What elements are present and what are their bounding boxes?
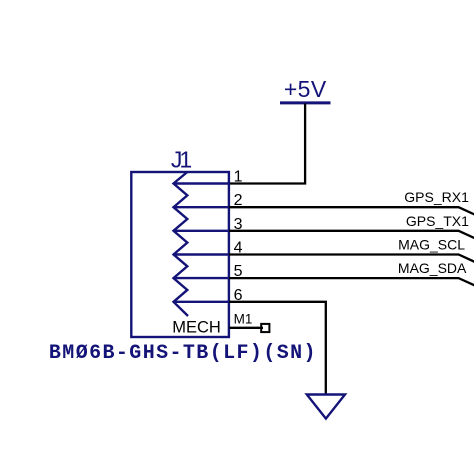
- pin 5: [174, 263, 243, 280]
- pin 2: [174, 192, 243, 209]
- pin 1: [174, 169, 243, 186]
- wire MAG_SDA: [229, 278, 474, 285]
- svg-text:J1: J1: [171, 146, 192, 172]
- wire pin6 to ground: [229, 302, 326, 394]
- wire GPS_TX1: [229, 231, 474, 238]
- svg-text:MECH: MECH: [172, 319, 221, 337]
- svg-text:BMØ6B-GHS-TB(LF)(SN): BMØ6B-GHS-TB(LF)(SN): [49, 342, 317, 365]
- ground: [307, 395, 345, 419]
- pin name MECH: [172, 319, 221, 337]
- net label GPS_RX1: [404, 189, 469, 205]
- refdes J1: [171, 146, 192, 172]
- svg-text:GPS_TX1: GPS_TX1: [406, 213, 469, 229]
- connector J1 contacts zigzag: [174, 172, 189, 316]
- svg-text:1: 1: [234, 169, 243, 186]
- pin 3: [174, 216, 243, 233]
- net label GPS_TX1: [406, 213, 469, 229]
- value label BM06B-GHS-TB(LF)(SN): [49, 342, 317, 365]
- wire MAG_SCL: [229, 255, 474, 262]
- wire GPS_RX1: [229, 207, 474, 214]
- svg-text:M1: M1: [234, 311, 253, 326]
- connector J1 body: [131, 172, 229, 337]
- svg-text:+5V: +5V: [284, 76, 327, 102]
- pin M1 MECH stub: [229, 311, 263, 328]
- svg-text:MAG_SCL: MAG_SCL: [398, 237, 465, 253]
- svg-text:MAG_SDA: MAG_SDA: [398, 260, 467, 276]
- wire pin1 to +5V: [229, 104, 305, 184]
- power +5V: [280, 76, 331, 103]
- net label MAG_SDA: [398, 260, 467, 276]
- net label MAG_SCL: [398, 237, 465, 253]
- no-connect square M1: [261, 324, 269, 332]
- pin 4: [174, 240, 243, 257]
- pin 6: [174, 287, 243, 304]
- svg-text:GPS_RX1: GPS_RX1: [404, 189, 469, 205]
